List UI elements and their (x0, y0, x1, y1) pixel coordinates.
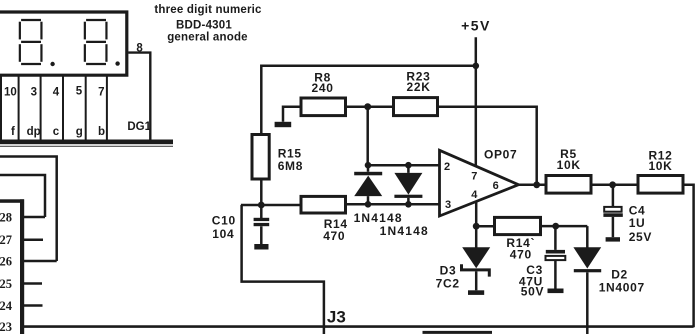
svg-text:5: 5 (76, 86, 83, 98)
svg-text:general anode: general anode (167, 32, 248, 44)
svg-text:104: 104 (212, 227, 234, 241)
svg-text:f: f (11, 126, 15, 138)
svg-text:7C2: 7C2 (436, 277, 460, 291)
svg-text:3: 3 (31, 86, 37, 98)
svg-text:D3: D3 (440, 264, 457, 278)
svg-text:470: 470 (323, 229, 345, 243)
svg-text:27: 27 (0, 233, 12, 247)
svg-text:2: 2 (444, 161, 450, 173)
svg-text:3: 3 (445, 199, 451, 211)
svg-text:10: 10 (4, 86, 17, 98)
svg-text:10K: 10K (648, 159, 672, 173)
svg-text:C10: C10 (212, 214, 236, 228)
svg-text:25V: 25V (629, 230, 652, 244)
svg-text:22K: 22K (407, 80, 431, 94)
svg-text:DG1: DG1 (127, 121, 151, 133)
svg-text:b: b (98, 126, 105, 138)
svg-text:23: 23 (0, 320, 12, 334)
svg-text:+5V: +5V (461, 18, 491, 34)
svg-text:BDD-4301: BDD-4301 (176, 19, 232, 31)
svg-text:7: 7 (98, 86, 104, 98)
svg-text:c: c (53, 126, 60, 138)
svg-text:7: 7 (471, 170, 477, 182)
svg-text:6: 6 (493, 180, 499, 192)
svg-text:25: 25 (0, 277, 12, 291)
svg-text:26: 26 (0, 255, 12, 269)
svg-text:g: g (76, 126, 83, 138)
svg-text:8: 8 (136, 42, 143, 54)
svg-text:three digit numeric: three digit numeric (154, 4, 262, 16)
svg-text:1N4148: 1N4148 (354, 211, 403, 225)
svg-text:470: 470 (510, 248, 532, 262)
svg-text:J3: J3 (327, 307, 346, 326)
svg-text:28: 28 (0, 211, 12, 225)
svg-text:OP07: OP07 (484, 148, 518, 162)
svg-text:50V: 50V (521, 285, 544, 299)
svg-text:6M8: 6M8 (278, 159, 303, 173)
svg-text:1N4148: 1N4148 (380, 224, 429, 238)
svg-text:1N4007: 1N4007 (599, 280, 645, 294)
svg-text:4: 4 (471, 189, 478, 201)
svg-text:10K: 10K (557, 158, 581, 172)
svg-text:24: 24 (0, 299, 13, 313)
svg-text:dp: dp (27, 126, 41, 138)
svg-text:1U: 1U (629, 216, 646, 230)
svg-text:4: 4 (53, 86, 60, 98)
svg-text:240: 240 (312, 81, 334, 95)
